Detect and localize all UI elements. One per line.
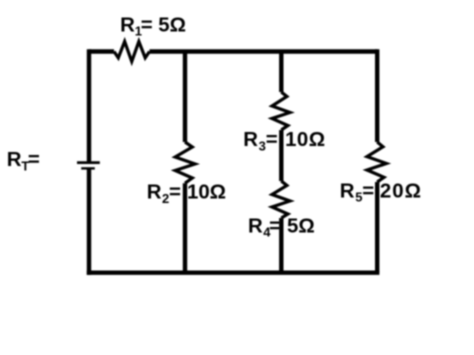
wire top segment right of R1 — [150, 49, 378, 53]
wire branch R3/R4 upper — [279, 52, 283, 93]
resistor R3 — [272, 92, 290, 130]
svg-text:R: R — [7, 149, 22, 171]
battery short plate — [81, 167, 95, 169]
svg-text:3: 3 — [259, 138, 266, 153]
svg-text:=: = — [266, 129, 278, 151]
svg-text:R: R — [248, 215, 263, 237]
battery long plate — [77, 161, 100, 164]
wire branch R3/R4 lower — [279, 218, 283, 273]
svg-text:R: R — [147, 181, 162, 203]
svg-text:=: = — [269, 215, 281, 237]
wire left edge lower — [87, 170, 91, 275]
svg-text:20Ω: 20Ω — [380, 180, 422, 202]
wire bottom — [87, 271, 380, 275]
svg-text:=: = — [141, 14, 153, 36]
svg-text:5Ω: 5Ω — [287, 215, 315, 237]
svg-text:10Ω: 10Ω — [285, 129, 326, 151]
svg-text:5Ω: 5Ω — [158, 14, 186, 36]
wire branch R2 upper — [183, 52, 187, 143]
svg-text:R: R — [340, 180, 355, 202]
resistor R5 — [367, 142, 386, 182]
wire right edge lower — [375, 182, 379, 273]
wire between R3 and R4 — [279, 130, 283, 181]
svg-text:10Ω: 10Ω — [187, 181, 226, 203]
resistor R4 — [272, 181, 290, 218]
svg-text:R: R — [243, 129, 258, 151]
resistor R2 — [175, 142, 195, 183]
wire branch R2 lower — [183, 183, 187, 273]
svg-text:=: = — [362, 180, 374, 202]
wire top-left segment — [89, 49, 114, 53]
svg-text:=: = — [28, 149, 40, 171]
svg-text:R: R — [120, 14, 135, 36]
svg-text:=: = — [169, 181, 181, 203]
wire right edge upper — [375, 49, 379, 142]
wire left edge upper — [87, 49, 91, 162]
resistor R1 — [114, 42, 150, 62]
